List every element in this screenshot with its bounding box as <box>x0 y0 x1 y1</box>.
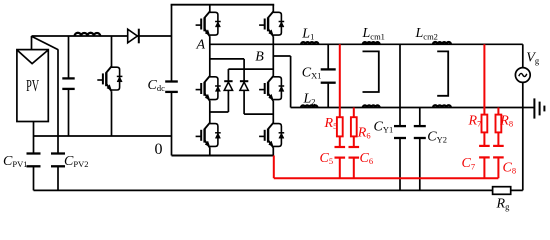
svg-text:B: B <box>255 49 264 64</box>
svg-text:0: 0 <box>155 141 163 158</box>
svg-text:A: A <box>196 38 206 53</box>
svg-text:PV: PV <box>26 76 39 95</box>
